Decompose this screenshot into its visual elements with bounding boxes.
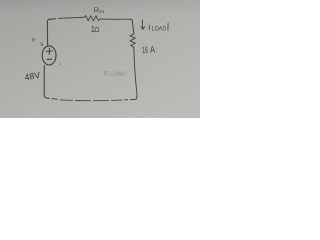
svg-text:int: int	[99, 9, 105, 15]
svg-text:LOAD: LOAD	[152, 25, 167, 32]
current arrow for ILOAD	[141, 20, 145, 30]
label Rint	[94, 5, 105, 15]
wire: Rint to top-right corner	[101, 18, 130, 20]
svg-text:s: s	[40, 41, 43, 48]
wire: bottom-left corner up to source	[44, 65, 49, 98]
label PLOAD (faint)	[104, 71, 125, 78]
voltage source VS circle	[42, 46, 56, 65]
wire: RLOAD down to bottom-right corner	[131, 47, 137, 99]
plus sign inside source	[46, 48, 52, 54]
wire: top-left corner from source up and across	[47, 19, 55, 46]
pencil dot right of source	[60, 63, 61, 64]
svg-text:16: 16	[142, 44, 149, 55]
resistor RLOAD zigzag (vertical)	[130, 34, 135, 47]
paper background	[0, 0, 200, 118]
svg-text:i: i	[148, 22, 150, 32]
stray tick after ILOAD	[167, 23, 169, 30]
wire: top-right corner down to RLOAD	[130, 19, 134, 34]
resistor R1 (Rint) zigzag	[84, 16, 100, 21]
paper speck	[10, 66, 11, 67]
value label 16 A	[142, 44, 156, 56]
value label 1 ohm	[91, 25, 101, 34]
label ILOAD	[148, 22, 166, 32]
minus sign inside source	[47, 58, 52, 60]
svg-text:Ω: Ω	[94, 25, 100, 34]
svg-text:-LOAD: -LOAD	[109, 72, 126, 78]
label VS	[32, 37, 44, 48]
wire: top horizontal segment to Rint	[59, 17, 85, 18]
wire: bottom dashed return (right to left)	[125, 99, 128, 101]
